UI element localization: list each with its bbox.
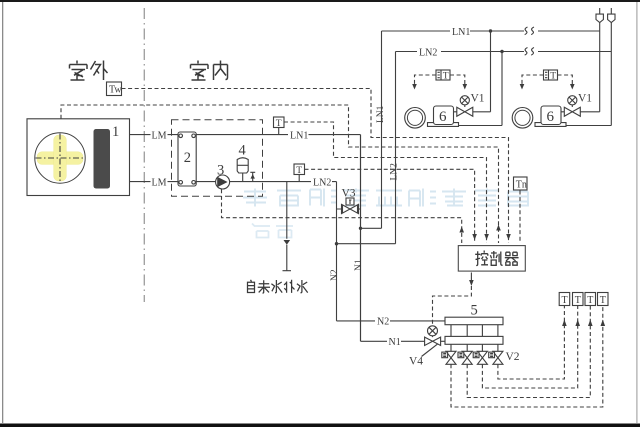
valve V2 no3 [473, 344, 487, 364]
fan blades yellow cross [37, 135, 83, 181]
PART-TOPRIGHT [382, 8, 616, 128]
svg-text:3: 3 [217, 163, 224, 179]
outdoor unit 1 box [27, 119, 130, 196]
svg-text:1: 1 [112, 124, 119, 140]
svg-text:LM: LM [152, 177, 167, 188]
wire T1 to controller (dashed) [284, 122, 487, 243]
svg-text:6: 6 [439, 109, 447, 125]
svg-text:T: T [600, 295, 606, 306]
pipe LN1 horizontal [196, 134, 360, 136]
svg-text:N1: N1 [389, 337, 401, 348]
thermostat wires coil 1 [415, 75, 465, 84]
valve V1 of coil2 [568, 96, 577, 105]
valve V2 no4 [489, 344, 503, 364]
riser to coil1 base [501, 52, 503, 126]
pump 3 [216, 175, 230, 189]
left border line [2, 2, 3, 423]
sensor T2 on LN2 [294, 164, 305, 175]
svg-text:N1: N1 [354, 259, 364, 271]
junction N2 riser [335, 242, 338, 245]
wire Tn to controller [519, 191, 521, 244]
coil1 pipes [454, 112, 503, 126]
svg-text:N2: N2 [330, 269, 340, 281]
controller output arrow [470, 273, 472, 281]
svg-text:LN2: LN2 [419, 47, 437, 58]
coil2 pipes [561, 112, 611, 126]
air vent funnel 2 [608, 14, 615, 22]
pipe N1 vertical [360, 135, 362, 342]
svg-text:V4: V4 [409, 356, 423, 368]
PART-WATERMARK [243, 189, 528, 238]
svg-text:LN1: LN1 [452, 27, 470, 38]
svg-text:Tw: Tw [109, 85, 122, 96]
svg-text:T: T [575, 295, 581, 306]
fan coil 2 unit 6 [535, 123, 566, 127]
break marks LN1 [526, 29, 533, 33]
manifold connectors [451, 325, 498, 337]
pipe LN2 top [396, 51, 612, 53]
PART-CONTROLLER [433, 177, 528, 326]
pipe N2 vertical [336, 182, 338, 321]
wire controller to V4 [433, 286, 472, 326]
thermostat stem arrows [562, 320, 605, 327]
valve V4 [428, 326, 438, 336]
watermark word2 [252, 224, 293, 238]
svg-text:LN2: LN2 [313, 177, 331, 188]
watermark row glyphs [243, 189, 267, 207]
break marks LN2 [526, 49, 533, 53]
wire T2 to controller (dashed) [305, 169, 475, 243]
svg-text:5: 5 [471, 303, 478, 319]
label 室内 (indoor) glyphs [191, 61, 228, 81]
junction N1 riser [359, 227, 362, 230]
junction dot LN1 [489, 29, 492, 32]
svg-text:V1: V1 [471, 93, 485, 105]
wire Tw to controller (dashed) [122, 89, 509, 244]
svg-text:N2: N2 [377, 317, 389, 328]
sensor T1 on LN1 [274, 117, 285, 128]
PART-LEFT [27, 8, 509, 302]
riser LN1 up [381, 31, 383, 228]
manifold 5 top bar [445, 317, 503, 325]
fan circle [35, 133, 85, 183]
svg-text:V1: V1 [578, 93, 592, 105]
manifold 5 bottom bar [445, 336, 503, 344]
fan coil 1 thermostat [436, 70, 450, 80]
top border bar [0, 0, 640, 2]
pipe LM top [130, 134, 179, 136]
valve V2 no2 [458, 344, 472, 364]
riser to coil2 base [610, 23, 612, 126]
svg-text:T: T [443, 72, 449, 82]
pipe LN1 top [382, 30, 600, 32]
svg-text:LN1: LN1 [376, 105, 386, 123]
loop wires to thermostats [451, 306, 603, 408]
pipe LN2 horizontal [196, 181, 336, 183]
svg-text:2: 2 [184, 150, 191, 166]
svg-text:T: T [587, 295, 593, 306]
label 自来水补水 glyphs [248, 280, 308, 293]
junction dot LN2 [500, 50, 503, 53]
wire outdoor unit to controller (dashed) [61, 105, 499, 243]
pipe N2 to manifold [337, 320, 446, 322]
svg-text:4: 4 [239, 143, 247, 159]
controller input arrows [459, 225, 500, 233]
svg-text:Tn: Tn [516, 180, 527, 191]
svg-text:6: 6 [547, 109, 555, 125]
coil dark block [94, 129, 111, 189]
right border line [636, 2, 637, 423]
sensor Tw box [107, 82, 122, 96]
svg-text:V2: V2 [506, 351, 520, 363]
svg-text:LN1: LN1 [290, 130, 308, 141]
makeup water pipe [283, 182, 292, 271]
riser to coil2 valve [599, 23, 601, 112]
fan coil 1 unit 6 [428, 123, 459, 127]
pipe LM bottom [130, 181, 179, 183]
riser LN2 up [395, 52, 397, 244]
riser to coil1 valve [490, 31, 492, 112]
label 室外 (outdoor) glyphs [70, 61, 108, 81]
sensor Tn box [514, 177, 528, 190]
PART-CENTER [172, 31, 487, 341]
room thermostat boxes T [559, 293, 570, 306]
heat exchanger 2 [178, 132, 196, 186]
controller box [458, 246, 525, 272]
pipe N1 to V4 [361, 340, 425, 342]
thermostat wires coil 2 [522, 75, 572, 84]
svg-text:T: T [562, 295, 568, 306]
dashed enclosure around 2,3,4 [172, 120, 263, 197]
valve V1 of coil1 [460, 96, 469, 105]
svg-text:LN2: LN2 [390, 163, 400, 181]
PART-BOTTOMRIGHT [337, 293, 609, 408]
partition line indoor/outdoor [143, 8, 145, 302]
wire pump to controller (dashed) [222, 189, 462, 243]
auto fill symbol on LN2 [250, 172, 255, 181]
label 控制器 glyphs [475, 251, 518, 266]
svg-text:LM: LM [152, 130, 167, 141]
valve V2 no1 [442, 344, 456, 364]
svg-text:T: T [550, 72, 556, 82]
bottom border bar [0, 424, 640, 427]
fan coil 2 thermostat [544, 70, 558, 80]
air vent funnel 1 [596, 14, 603, 22]
fan centerlines [36, 134, 85, 183]
